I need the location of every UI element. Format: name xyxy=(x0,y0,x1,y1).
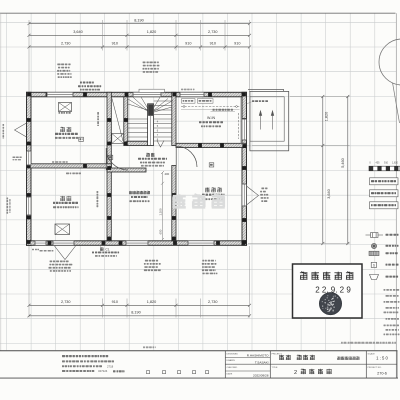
bedroom2 closet X box xyxy=(55,224,70,235)
company address line xyxy=(62,360,114,362)
window spec below bottom wall west xyxy=(50,261,69,263)
title block verticals xyxy=(225,351,397,378)
svg-text:1,820: 1,820 xyxy=(147,300,157,304)
svg-text:R.HASHIMOTO: R.HASHIMOTO xyxy=(247,354,269,358)
bottom dim rowB line xyxy=(29,315,250,317)
bottom dim rowA ticks xyxy=(28,304,252,307)
window spec above top wall west xyxy=(57,64,70,66)
top dim total ticks xyxy=(28,22,252,25)
top dim row3 line xyxy=(29,46,250,48)
svg-text:2: 2 xyxy=(294,370,297,376)
green label small xyxy=(143,346,156,348)
window top wall stairs xyxy=(133,92,161,97)
svg-text:PROJECT: PROJECT xyxy=(272,353,283,355)
svg-text:2718: 2718 xyxy=(107,364,114,368)
top dim row2 line xyxy=(29,34,250,36)
window spec below bottom wall center xyxy=(145,260,158,262)
svg-text:910: 910 xyxy=(384,162,389,165)
svg-text:CL: CL xyxy=(105,248,109,252)
top dim row3 ticks xyxy=(28,45,252,48)
exterior wall top xyxy=(27,92,247,97)
closet niche diagonal xyxy=(112,99,123,142)
window bottom wall bedroom2 xyxy=(53,241,74,246)
window spec below bottom wall east xyxy=(202,260,216,262)
bottom dim extension lines xyxy=(29,246,250,318)
closet niche X box xyxy=(112,134,124,144)
right dim outer line 5460 xyxy=(347,97,349,244)
staircase rail inner line xyxy=(150,116,152,146)
wic shelf label box b xyxy=(198,99,214,104)
balcony outer wall xyxy=(250,91,289,150)
svg-text:DATE: DATE xyxy=(227,373,233,376)
bedroom2 label xyxy=(60,196,65,201)
note box foundation packing xyxy=(370,178,399,185)
freespace label xyxy=(129,191,132,194)
stamp seal xyxy=(320,293,342,315)
legend underfloor vent symbol xyxy=(369,251,379,255)
bedroom1 closet X box xyxy=(59,103,72,112)
svg-text:910: 910 xyxy=(112,300,118,304)
window small label bottom a xyxy=(32,249,39,251)
bedroom2 wall text vertical xyxy=(97,191,99,207)
right dim extension lines xyxy=(248,97,350,244)
wic hanger pipe dashed xyxy=(181,106,240,108)
interior wall stair east xyxy=(172,92,176,145)
staircase treads xyxy=(128,101,172,141)
staircase up arrow V xyxy=(157,141,164,148)
svg-text:910: 910 xyxy=(112,42,118,46)
svg-text:PROJECT NO.: PROJECT NO. xyxy=(368,367,382,369)
svg-text:910: 910 xyxy=(185,42,191,46)
svg-text:DESIGNED: DESIGNED xyxy=(227,353,239,355)
legend smoke alarm symbol xyxy=(371,262,376,267)
svg-text:5,460: 5,460 xyxy=(341,158,345,168)
stair window label box xyxy=(139,89,165,92)
svg-text:8,190: 8,190 xyxy=(131,311,141,315)
interior wall stair west xyxy=(124,97,128,146)
watermark logo text xyxy=(173,194,186,208)
interior wall master-freespace divider xyxy=(172,166,176,241)
svg-text:T.SASAKI: T.SASAKI xyxy=(255,360,269,364)
hall door arc east to master xyxy=(176,146,197,167)
hall label xyxy=(146,153,150,157)
company name line xyxy=(62,355,108,357)
interior wall under stair xyxy=(127,141,152,145)
balcony roof arrow b xyxy=(271,111,274,130)
window label left wall outside upper xyxy=(3,124,5,139)
interior wall freespace north xyxy=(107,168,146,172)
svg-text:1 : 5 0: 1 : 5 0 xyxy=(376,355,388,360)
casement window triangle right wall xyxy=(247,186,259,205)
balcony outer step line xyxy=(248,89,284,91)
stamp box xyxy=(293,264,363,318)
svg-text:910: 910 xyxy=(210,42,216,46)
legend supply vent symbol xyxy=(366,233,384,238)
svg-text:8,190: 8,190 xyxy=(134,18,144,22)
note box foundation center xyxy=(370,190,399,197)
bedroom1 closet label xyxy=(59,112,71,114)
svg-text:3,640: 3,640 xyxy=(327,189,331,199)
balcony inner rail xyxy=(250,97,284,141)
balcony door right wall xyxy=(242,119,247,140)
window left wall bedroom1 xyxy=(27,151,32,165)
bedroom2 top label xyxy=(66,173,81,175)
bottom right small note text xyxy=(341,342,396,344)
small vent window bottom wall west xyxy=(35,241,46,246)
legend heat alarm symbol xyxy=(370,275,379,280)
wic shelf label box a xyxy=(182,99,196,104)
right dim inner ticks xyxy=(321,95,324,245)
exterior wall bottom xyxy=(27,241,247,246)
legend underfloor vent text xyxy=(386,252,398,254)
svg-text:DRAWN: DRAWN xyxy=(227,359,236,362)
company license line 2 xyxy=(62,370,94,372)
svg-text:2,730: 2,730 xyxy=(61,42,71,46)
svg-text:S: S xyxy=(373,263,375,267)
bedroom1 detector box xyxy=(79,137,84,141)
detail balloon leader xyxy=(393,83,400,124)
legend smoke alarm text xyxy=(386,264,399,266)
balcony hardware label xyxy=(252,100,268,102)
legend exhaust fan symbol xyxy=(371,243,376,248)
right dim inner line xyxy=(322,97,324,244)
window small label bottom b xyxy=(40,250,54,252)
bedroom1 wall text vertical xyxy=(97,112,99,126)
project client name pseudo xyxy=(279,355,284,360)
window spec right of master window xyxy=(261,188,267,190)
svg-text:1,820: 1,820 xyxy=(325,112,329,122)
svg-text:650: 650 xyxy=(158,229,162,234)
top dim extension lines xyxy=(29,20,250,92)
interior wall bedroom1 south xyxy=(27,164,112,168)
svg-text:2,730: 2,730 xyxy=(208,30,218,34)
svg-text:TITLE: TITLE xyxy=(272,367,278,369)
staircase winder fan lines xyxy=(128,97,173,113)
project work name pseudo xyxy=(337,356,340,359)
hall partition note xyxy=(52,161,68,163)
window spec above top wall center xyxy=(143,62,159,64)
casement window triangle left wall xyxy=(15,123,27,137)
bottom dim rowB ticks xyxy=(28,314,252,317)
revision checkboxes xyxy=(147,371,209,374)
graphic scale bar xyxy=(369,166,400,171)
window left wall bedroom2 xyxy=(27,197,32,215)
right column note lines xyxy=(384,289,400,291)
bedroom1 label xyxy=(60,127,65,132)
wall column posts xyxy=(27,93,246,245)
title block bottom rule xyxy=(0,377,398,379)
svg-text:SCALE: SCALE xyxy=(368,352,376,355)
svg-text:455: 455 xyxy=(376,162,381,165)
detail balloon circle xyxy=(379,39,400,85)
window bottom wall freespace xyxy=(126,241,148,246)
sheet top border xyxy=(0,12,396,14)
master detector box xyxy=(209,163,214,167)
svg-text:270-6: 270-6 xyxy=(377,371,387,375)
staircase center rail xyxy=(148,104,154,146)
company license line 1 xyxy=(62,365,102,367)
hall detector box xyxy=(108,155,113,159)
hall void label above top wall xyxy=(80,82,94,84)
hall door arc west xyxy=(106,148,128,170)
legend exhaust fan text xyxy=(386,245,399,247)
sheet left border xyxy=(0,13,2,350)
master bedroom label xyxy=(205,187,210,192)
top dim row2 ticks xyxy=(28,34,252,37)
svg-text:1,100: 1,100 xyxy=(158,208,162,215)
svg-text:2,730: 2,730 xyxy=(208,300,218,304)
exterior wall left xyxy=(27,92,32,245)
window bottom wall master xyxy=(188,241,214,246)
interior wall master bedroom north xyxy=(176,143,247,147)
svg-text:W-IN: W-IN xyxy=(207,116,216,120)
svg-text:1,820: 1,820 xyxy=(147,30,157,34)
wic top outside label xyxy=(181,89,195,91)
window top wall west xyxy=(47,92,73,97)
window label left wall outside xyxy=(7,198,9,214)
top dim row total 8190 line xyxy=(29,23,250,25)
svg-text:1,820: 1,820 xyxy=(392,162,399,165)
closet CL label below wall xyxy=(100,247,103,250)
window right wall master xyxy=(242,184,247,206)
wic ceiling note and leader xyxy=(213,109,233,111)
balcony roof arrow a xyxy=(259,111,262,130)
closet CL leader xyxy=(99,245,101,248)
window top wall closet room xyxy=(180,92,204,97)
freespace internal dim line xyxy=(162,173,164,240)
staircase landing dark block xyxy=(148,104,153,116)
drawing area bottom rule xyxy=(0,350,398,352)
wic side pipe dashed xyxy=(238,113,240,139)
svg-text:CHECKED: CHECKED xyxy=(227,367,238,369)
legend supply vent text xyxy=(386,234,399,236)
sheet right border xyxy=(395,13,397,378)
wic inner wall line xyxy=(240,97,242,143)
svg-text:910: 910 xyxy=(234,42,240,46)
stamp title pseudo kanji FINAL DECISION xyxy=(300,272,308,280)
svg-text:347224: 347224 xyxy=(98,369,108,373)
bottom dim rowA line xyxy=(29,304,250,306)
note box curtain box xyxy=(370,202,399,209)
svg-text:2022/09/28: 2022/09/28 xyxy=(253,374,269,378)
awning triangle below bedroom2 window xyxy=(55,246,76,260)
window label top left corner xyxy=(13,157,22,159)
svg-text:2,730: 2,730 xyxy=(61,300,71,304)
title block row dividers left column xyxy=(225,358,397,372)
exterior wall right xyxy=(242,92,247,245)
interior wall left-rooms divider vertical xyxy=(107,92,111,241)
svg-text:3,640: 3,640 xyxy=(73,30,83,34)
wic shelf line xyxy=(181,109,240,111)
right dim outer ticks xyxy=(346,95,349,245)
legend heat alarm text xyxy=(386,276,399,278)
svg-text:400: 400 xyxy=(165,172,170,176)
